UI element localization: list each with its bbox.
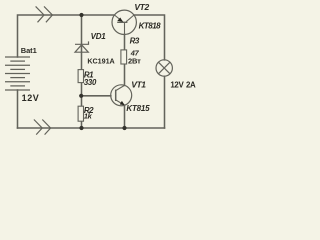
svg-text:Bat1: Bat1	[21, 46, 37, 55]
svg-text:KC191A: KC191A	[87, 56, 114, 65]
svg-text:KT815: KT815	[126, 104, 150, 113]
svg-text:VT1: VT1	[131, 80, 146, 90]
svg-text:330: 330	[84, 78, 97, 87]
svg-text:1k: 1k	[84, 112, 93, 121]
svg-text:2Вт: 2Вт	[128, 56, 141, 65]
svg-text:VT2: VT2	[134, 2, 149, 12]
svg-text:KT818: KT818	[139, 21, 162, 30]
svg-text:VD1: VD1	[91, 32, 107, 41]
svg-text:12V: 12V	[22, 93, 40, 103]
svg-text:12V 2A: 12V 2A	[170, 80, 196, 89]
svg-text:R3: R3	[130, 37, 140, 46]
